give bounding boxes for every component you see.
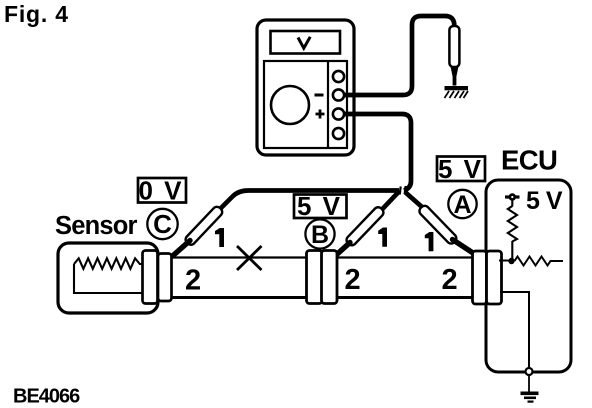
probe B body bbox=[345, 205, 386, 247]
wire negative test lead from jack 2 to ground probe bbox=[343, 16, 454, 95]
label Sensor bbox=[55, 212, 138, 240]
wire resistor to node bbox=[511, 241, 513, 261]
circled C bbox=[147, 209, 177, 239]
wire test lead C from probe junction to probe C bbox=[219, 191, 399, 211]
label box 5 V (measurement B) bbox=[294, 191, 347, 221]
node junction dot in ECU bbox=[508, 258, 514, 264]
probe C body bbox=[184, 205, 224, 247]
label box 5 V (measurement A) bbox=[437, 154, 485, 184]
svg-text:0 V: 0 V bbox=[138, 176, 183, 206]
sensor body bbox=[58, 243, 158, 313]
wire 1 middle connector to ECU bbox=[337, 256, 474, 258]
pin label 1 (middle connector) bbox=[378, 228, 387, 247]
pin label 1 (sensor side) bbox=[215, 228, 224, 247]
voltmeter jack 3 (positive) bbox=[333, 108, 344, 119]
label ECU bbox=[501, 145, 557, 176]
svg-text:B: B bbox=[311, 221, 329, 249]
svg-text:BE4066: BE4066 bbox=[13, 386, 80, 408]
middle connector half 2 bbox=[322, 251, 338, 304]
svg-text:Fig. 4: Fig. 4 bbox=[4, 1, 69, 27]
wire positive test lead from jack 3 down to probe junction bbox=[343, 114, 411, 191]
svg-text:2: 2 bbox=[442, 264, 458, 296]
svg-text:C: C bbox=[153, 209, 172, 239]
sensor connector half 2 bbox=[158, 254, 172, 302]
plus polarity mark bbox=[316, 110, 325, 119]
probe junction node bbox=[400, 186, 406, 195]
svg-text:2: 2 bbox=[345, 264, 361, 296]
voltmeter V1 body bbox=[257, 20, 354, 155]
voltmeter display window bbox=[271, 31, 341, 54]
probe B tip at middle connector bbox=[335, 243, 351, 257]
voltmeter dial bbox=[271, 86, 309, 124]
svg-text:ECU: ECU bbox=[501, 145, 557, 176]
voltmeter jack column divider bbox=[327, 61, 329, 148]
wire ECU connector pin 1 to node bbox=[499, 260, 512, 262]
svg-text:5 V: 5 V bbox=[297, 191, 342, 221]
voltmeter jack 4 bbox=[333, 128, 344, 139]
wire ground terminal to ground symbol bbox=[528, 375, 530, 392]
ECU connector half 1 bbox=[473, 251, 487, 304]
pin label 2 (middle connector) bbox=[345, 264, 361, 296]
ECU box bbox=[486, 180, 571, 372]
resistor R1 pull-up in ECU bbox=[508, 206, 517, 242]
voltmeter jack 1 bbox=[333, 71, 344, 82]
ECU connector half 2 bbox=[487, 251, 502, 304]
pin label 1 (ECU side) bbox=[425, 232, 434, 251]
circled B bbox=[305, 219, 334, 249]
break mark X on wire 1 bbox=[237, 246, 262, 270]
wire 2 sensor to middle connector bbox=[172, 296, 307, 299]
sensor internal wire loop bbox=[74, 264, 146, 293]
probe C tip at sensor connector bbox=[173, 241, 191, 257]
wire test lead A from probe junction to probe A bbox=[405, 192, 422, 207]
probe A body bbox=[418, 204, 459, 245]
negative probe tip bbox=[450, 66, 458, 86]
svg-text:A: A bbox=[453, 191, 471, 219]
voltmeter jack 2 (negative) bbox=[333, 89, 344, 100]
svg-text:Sensor: Sensor bbox=[55, 212, 138, 240]
wire from 5V terminal to pull-up resistor bbox=[511, 200, 513, 207]
middle connector half 1 bbox=[307, 251, 323, 304]
label box 0 V (measurement C) bbox=[138, 176, 186, 206]
wire ECU connector pin 2 to ground bbox=[500, 292, 529, 369]
wire test lead B from probe junction to probe B bbox=[381, 192, 399, 211]
label 5 V inside ECU bbox=[526, 187, 563, 215]
probe A tip at ECU connector bbox=[453, 240, 475, 255]
svg-text:5 V: 5 V bbox=[438, 154, 483, 184]
sensor connector half 1 bbox=[143, 251, 158, 304]
voltmeter front panel bbox=[264, 61, 347, 148]
svg-text:5 V: 5 V bbox=[526, 187, 563, 215]
figure title Fig. 4 bbox=[4, 1, 69, 27]
pin label 2 (sensor side) bbox=[185, 265, 201, 297]
resistor (sensor element) bbox=[74, 258, 144, 269]
negative probe body bbox=[449, 26, 459, 67]
pin label 2 (ECU side) bbox=[442, 264, 458, 296]
ground symbol (body ground at negative probe) bbox=[445, 86, 469, 98]
svg-text:2: 2 bbox=[185, 265, 201, 297]
5V supply terminal in ECU bbox=[505, 193, 520, 201]
resistor R2 in ECU bbox=[515, 257, 564, 266]
drawing number BE4066 bbox=[13, 386, 80, 408]
circled A bbox=[448, 190, 476, 219]
voltmeter V symbol on display bbox=[298, 37, 310, 48]
wire 2 middle connector to ECU bbox=[337, 296, 474, 299]
ground symbol (ECU ground) bbox=[521, 392, 539, 403]
minus polarity mark bbox=[315, 94, 324, 97]
wire 1 sensor to middle connector bbox=[172, 256, 307, 258]
ground terminal circle on ECU case bbox=[526, 368, 533, 375]
